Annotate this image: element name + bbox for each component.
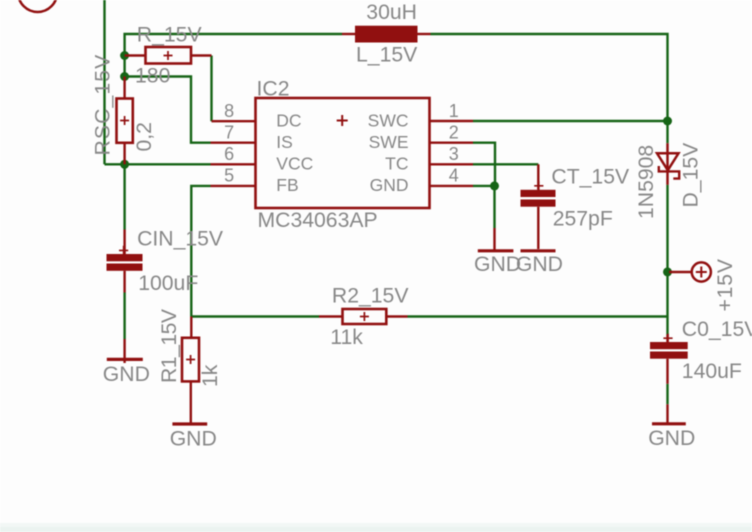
svg-text:L_15V: L_15V — [356, 44, 418, 67]
svg-text:GND: GND — [370, 175, 409, 195]
svg-text:4: 4 — [449, 166, 459, 186]
resistor R2_15V — [319, 309, 408, 324]
resistor R1_15V — [182, 317, 199, 424]
svg-text:+15V: +15V — [714, 258, 737, 311]
svg-text:IC2: IC2 — [257, 78, 290, 101]
pin 5 stub — [211, 185, 256, 187]
svg-text:TC: TC — [385, 153, 408, 173]
junction node dot at RSC bottom / VCC row — [120, 160, 129, 169]
wire pin3/TC to CT — [473, 163, 538, 165]
op-amp internal plus mark — [337, 115, 348, 126]
svg-text:R1_15V: R1_15V — [158, 308, 181, 383]
svg-text:180: 180 — [135, 65, 170, 88]
wire CIN top — [123, 164, 125, 229]
pin 1 stub — [430, 120, 474, 122]
svg-text:GND: GND — [648, 427, 695, 450]
svg-text:C0_15V: C0_15V — [682, 318, 752, 341]
inductor L_15V — [342, 26, 431, 43]
svg-text:D_15V: D_15V — [680, 142, 703, 208]
svg-text:5: 5 — [224, 166, 234, 186]
ground GND2 under CT — [521, 249, 556, 252]
wire R1 node to R2 — [191, 315, 319, 317]
wire pin5/FB net — [191, 186, 210, 317]
wire +15V node down through R2 row to C0 — [666, 272, 668, 335]
capacitor CIN_15V — [107, 230, 143, 293]
pin 4 stub — [430, 185, 474, 187]
pin 8 stub — [212, 120, 256, 122]
svg-text:CIN_15V: CIN_15V — [137, 228, 224, 251]
svg-text:140uF: 140uF — [682, 360, 742, 383]
wire row pin6/VCC horizontal — [105, 163, 211, 165]
capacitor CT_15V — [521, 164, 556, 249]
wire top rail to inductor — [125, 34, 342, 77]
svg-text:SWE: SWE — [369, 132, 409, 152]
svg-text:8: 8 — [224, 101, 234, 121]
svg-text:3: 3 — [449, 144, 459, 164]
capacitor C0_15V — [650, 334, 688, 384]
svg-text:MC34063AP: MC34063AP — [258, 209, 378, 232]
pin 2 stub — [430, 141, 474, 143]
svg-text:1k: 1k — [199, 364, 222, 387]
pin 3 stub — [430, 163, 474, 165]
wire CIN bottom to GND — [123, 293, 125, 340]
bottom faint band — [0, 523, 752, 532]
svg-text:IS: IS — [276, 132, 293, 152]
pin 7 stub — [211, 141, 256, 143]
wire inductor to right rail and down to pin1 node — [431, 34, 668, 121]
junction node dot at SWC / diode rail — [663, 117, 672, 126]
svg-text:GND: GND — [516, 253, 563, 276]
partial circle of off-sheet symbol top-left — [18, 0, 57, 12]
wire pin8/DC net from R_15V — [210, 56, 212, 122]
svg-text:R2_15V: R2_15V — [332, 285, 409, 308]
svg-text:257pF: 257pF — [553, 208, 613, 231]
wire R2 to right rail — [408, 315, 668, 317]
ground under C0 — [652, 404, 686, 424]
svg-text:7: 7 — [224, 123, 234, 143]
svg-text:RSC_15V: RSC_15V — [91, 54, 114, 156]
svg-text:100uF: 100uF — [138, 272, 198, 295]
svg-text:GND: GND — [474, 253, 521, 276]
svg-text:GND: GND — [103, 363, 150, 386]
svg-text:1N5908: 1N5908 — [635, 145, 658, 219]
wire pin7/IS net — [125, 77, 211, 143]
svg-text:11k: 11k — [330, 326, 363, 349]
svg-text:GND: GND — [170, 427, 217, 450]
supply symbol +15V — [669, 262, 711, 281]
svg-text:6: 6 — [224, 144, 234, 164]
svg-text:R_15V: R_15V — [137, 23, 203, 46]
wire rail below diode to +15V node — [666, 185, 668, 272]
wire pin4/GND to junction — [473, 185, 495, 187]
junction node dot at R_15V left — [120, 51, 129, 60]
wire left input rail vertical — [103, 0, 105, 164]
ground under CIN — [107, 339, 143, 363]
ground under R1 — [172, 422, 207, 425]
ground GND1 under pin4 — [478, 228, 514, 251]
svg-text:30uH: 30uH — [366, 1, 417, 24]
junction node dot at +15V output — [663, 267, 672, 276]
wire rail above diode — [666, 121, 668, 143]
svg-text:VCC: VCC — [276, 153, 313, 173]
diode D_15V 1N5908 — [657, 143, 679, 185]
svg-text:1: 1 — [449, 101, 459, 121]
pin 6 stub — [211, 163, 256, 165]
svg-text:CT_15V: CT_15V — [551, 166, 630, 189]
svg-text:2: 2 — [449, 123, 459, 143]
svg-text:0,2: 0,2 — [133, 122, 156, 151]
junction node dot at IC GND pin — [490, 181, 499, 190]
resistor R_15V — [125, 47, 212, 64]
wire junction down to GND1 — [493, 186, 495, 228]
svg-text:DC: DC — [276, 110, 301, 130]
resistor RSC_15V — [117, 77, 133, 165]
svg-text:FB: FB — [276, 175, 298, 195]
wire pin2/SWE net — [473, 143, 495, 186]
svg-text:SWC: SWC — [368, 110, 409, 130]
wire C0 bottom to GND — [666, 384, 668, 405]
wire pin1/SWC to rail — [473, 120, 668, 122]
IC U1 MC34063AP box — [256, 98, 430, 208]
junction node dot at RSC top — [120, 72, 129, 81]
